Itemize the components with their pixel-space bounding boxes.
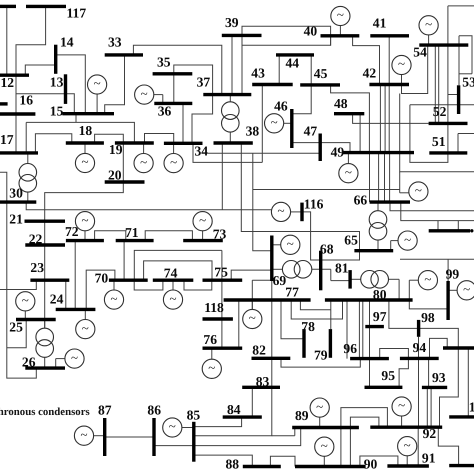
- svg-text:~: ~: [141, 86, 148, 101]
- bus118: [203, 317, 233, 320]
- svg-text:84: 84: [227, 402, 241, 417]
- wire w44-45: [310, 55, 312, 85]
- svg-text:~: ~: [415, 183, 422, 198]
- svg-text:37: 37: [197, 75, 211, 90]
- bus49: [343, 151, 415, 154]
- svg-text:~: ~: [277, 203, 284, 218]
- svg-text:~: ~: [463, 282, 470, 297]
- wire w99-up: [447, 259, 449, 281]
- svg-text:20: 20: [108, 168, 122, 183]
- svg-text:23: 23: [30, 260, 44, 275]
- wire w98-94-92: [418, 337, 420, 427]
- svg-text:33: 33: [108, 35, 122, 50]
- svg-text:89: 89: [295, 408, 309, 423]
- wire w54-top: [448, 5, 474, 7]
- svg-text:95: 95: [381, 368, 395, 383]
- bus51: [429, 151, 467, 154]
- wire w45-46: [292, 85, 311, 114]
- svg-text:41: 41: [373, 16, 387, 31]
- wire w39-40b: [242, 36, 331, 45]
- generator G73: [193, 212, 212, 231]
- wire w88-90: [270, 456, 295, 466]
- svg-text:96: 96: [343, 341, 357, 356]
- wire w66-r2: [401, 202, 474, 221]
- bus16: [0, 112, 35, 115]
- wire generator stub: [251, 300, 253, 309]
- svg-text:71: 71: [125, 225, 139, 240]
- wire w53-up3: [459, 73, 472, 75]
- wire w-left-25: [7, 320, 26, 348]
- bus25: [16, 318, 56, 321]
- wire w46-47: [292, 142, 320, 144]
- wire generator stub: [173, 143, 175, 153]
- wire generator stub: [211, 348, 213, 359]
- wire w48-49: [359, 114, 361, 153]
- bus18: [66, 141, 104, 144]
- wire w40-41: [353, 36, 380, 85]
- generator G85: [163, 418, 182, 437]
- wire generator stub: [55, 359, 57, 369]
- wire w80-96c: [346, 300, 348, 359]
- svg-text:~: ~: [398, 56, 405, 71]
- bus71: [116, 239, 154, 242]
- wire w100-110: [467, 348, 469, 417]
- wire w53-up2: [458, 36, 460, 86]
- wire w54-52b: [438, 45, 440, 123]
- bus73: [183, 239, 223, 242]
- wire w83-84: [251, 387, 253, 417]
- node dot right of bus64: [470, 229, 473, 232]
- wire generator stub: [143, 143, 145, 154]
- bus97: [365, 325, 384, 328]
- svg-text:~: ~: [71, 350, 78, 365]
- bus36: [154, 102, 192, 105]
- wire generator stub: [448, 289, 457, 291]
- wire w33-15: [105, 55, 125, 114]
- svg-text:116: 116: [304, 197, 324, 212]
- wire transformer stub: [330, 269, 332, 280]
- svg-text:66: 66: [354, 193, 368, 208]
- bus30: [0, 200, 36, 203]
- svg-text:76: 76: [203, 332, 217, 347]
- wire w64-tap1: [437, 221, 439, 231]
- wire w11-12: [6, 6, 8, 75]
- svg-text:~: ~: [199, 212, 206, 227]
- svg-text:26: 26: [22, 355, 36, 370]
- wire w87-86: [105, 436, 154, 438]
- wire w23-left: [0, 280, 36, 289]
- bus34: [164, 142, 203, 145]
- svg-text:~: ~: [398, 398, 405, 413]
- svg-text:46: 46: [274, 99, 288, 114]
- bus12: [0, 73, 29, 76]
- svg-text:42: 42: [363, 66, 377, 81]
- bus75: [203, 279, 243, 282]
- svg-text:94: 94: [413, 340, 427, 355]
- wire generator stub: [319, 417, 321, 427]
- bus41: [370, 34, 409, 37]
- svg-text:1: 1: [469, 400, 474, 415]
- wire w53-up1: [459, 36, 472, 74]
- wire transformer stub: [44, 357, 46, 368]
- generator G18: [75, 153, 94, 172]
- transformer T37-38: [222, 102, 240, 132]
- svg-text:~: ~: [337, 7, 344, 22]
- generator G36: [135, 85, 154, 104]
- wire w90-91: [360, 456, 398, 467]
- bus22: [25, 243, 65, 246]
- bus87: [103, 418, 106, 456]
- bus91: [387, 464, 429, 467]
- svg-text:45: 45: [314, 66, 328, 81]
- svg-text:47: 47: [304, 124, 318, 139]
- svg-text:70: 70: [95, 271, 109, 286]
- wire w92-112: [438, 427, 458, 465]
- wire w23-T25: [44, 280, 46, 328]
- svg-text:36: 36: [158, 104, 172, 119]
- svg-text:chronous condensors: chronous condensors: [0, 406, 90, 418]
- wire generator stub: [24, 311, 26, 320]
- svg-text:~: ~: [80, 427, 87, 442]
- svg-text:~: ~: [404, 232, 411, 247]
- bus13: [64, 74, 67, 104]
- wire generator stub: [56, 358, 65, 360]
- svg-text:118: 118: [204, 300, 224, 315]
- wire w23-24: [65, 280, 67, 309]
- wire w39-37b: [241, 35, 243, 94]
- wire w80-98-92: [389, 300, 458, 427]
- svg-text:43: 43: [251, 66, 265, 81]
- wire w45-49: [331, 85, 370, 153]
- svg-text:87: 87: [98, 403, 112, 418]
- generator G65: [398, 231, 417, 250]
- svg-text:34: 34: [195, 144, 209, 159]
- svg-text:~: ~: [22, 293, 29, 308]
- wire transformer stub: [388, 278, 399, 280]
- wire w89-90b: [349, 428, 351, 467]
- wire w51-tap: [457, 134, 459, 153]
- bus93: [422, 386, 447, 389]
- wire w93-92a: [426, 387, 428, 427]
- svg-text:16: 16: [19, 93, 33, 108]
- wire w80-96a: [358, 300, 360, 359]
- svg-text:90: 90: [364, 457, 378, 472]
- bus79: [329, 329, 332, 358]
- svg-text:38: 38: [246, 124, 260, 139]
- bus20: [105, 180, 145, 183]
- wire w35-37: [174, 65, 213, 95]
- wire w47-49: [320, 143, 350, 153]
- bus84: [223, 415, 262, 418]
- bus46: [290, 109, 293, 148]
- wire w85-84: [194, 417, 242, 427]
- wire transformer stub: [27, 153, 29, 164]
- svg-text:~: ~: [208, 360, 215, 375]
- wire w48-52: [353, 114, 429, 124]
- svg-text:39: 39: [225, 15, 239, 30]
- generator G66r: [409, 182, 428, 201]
- wire w49-66a: [369, 153, 371, 203]
- svg-text:52: 52: [433, 104, 447, 119]
- wire transformer stub: [229, 132, 231, 143]
- svg-text:78: 78: [301, 319, 315, 334]
- svg-text:30: 30: [9, 186, 23, 201]
- transformer T69-81: [282, 261, 311, 279]
- wire wbus15tap: [75, 114, 77, 123]
- svg-text:49: 49: [331, 145, 345, 160]
- svg-text:~: ~: [81, 212, 88, 227]
- wire generator stub: [84, 309, 86, 319]
- bus82: [252, 357, 291, 360]
- bus81: [348, 270, 351, 289]
- transformer T25-26: [36, 328, 54, 357]
- bus39: [222, 34, 262, 37]
- wire w69-85: [194, 281, 272, 436]
- wire w117-12: [16, 6, 46, 75]
- bus26: [25, 366, 65, 369]
- wire generator stub: [172, 280, 174, 290]
- wire generator stub: [96, 94, 98, 114]
- wire w54-51: [410, 6, 448, 163]
- wire w72-24: [74, 241, 76, 310]
- bus19: [115, 141, 154, 144]
- svg-text:~: ~: [110, 291, 117, 306]
- bus77: [224, 298, 311, 301]
- bus44: [276, 53, 314, 56]
- wire generator stub: [113, 280, 115, 290]
- svg-text:99: 99: [446, 267, 460, 282]
- wire w38-65: [241, 143, 359, 251]
- wire w49-66c: [384, 153, 386, 203]
- wire w12-14: [25, 65, 55, 75]
- wire w17-19: [26, 122, 134, 143]
- generator G26: [65, 349, 84, 368]
- wire generator stub: [391, 240, 398, 242]
- svg-text:48: 48: [334, 96, 348, 111]
- wire w85-89: [294, 428, 296, 436]
- generator G46: [265, 114, 284, 133]
- wire w49-66d: [389, 153, 391, 203]
- wire w18-20: [95, 134, 124, 182]
- svg-text:93: 93: [432, 370, 446, 385]
- svg-text:~: ~: [424, 271, 431, 286]
- svg-text:~: ~: [271, 115, 278, 130]
- wire w16-15: [16, 94, 74, 114]
- svg-text:24: 24: [50, 292, 64, 307]
- svg-text:18: 18: [79, 123, 93, 138]
- wire w72-71: [95, 231, 126, 241]
- generator G91: [398, 437, 417, 456]
- wire generator stub: [390, 241, 392, 251]
- wire w92-91: [417, 427, 419, 465]
- svg-text:73: 73: [213, 227, 227, 242]
- bus40: [321, 34, 360, 37]
- svg-text:54: 54: [413, 45, 427, 60]
- wire w15-17-19: [25, 122, 27, 152]
- wire w89-92b: [350, 417, 379, 427]
- svg-text:80: 80: [373, 287, 387, 302]
- svg-text:44: 44: [286, 56, 300, 71]
- transformer T66-65: [369, 211, 387, 240]
- bus76: [203, 347, 243, 350]
- svg-text:86: 86: [147, 403, 161, 418]
- wire w42-54: [402, 45, 428, 93]
- svg-text:21: 21: [9, 212, 23, 227]
- wire w82-96: [281, 358, 360, 367]
- svg-text:81: 81: [335, 261, 349, 276]
- wire transformer stub: [27, 192, 29, 202]
- wire w85-89b: [272, 435, 295, 437]
- wire transformer stub: [377, 240, 379, 251]
- generator G80: [418, 271, 437, 290]
- svg-text:91: 91: [422, 451, 436, 466]
- wire w17-18: [35, 134, 71, 153]
- wire w69-77g: [251, 280, 253, 309]
- wire w70-75a: [134, 250, 222, 280]
- svg-text:69: 69: [273, 273, 287, 288]
- wire generator stub: [323, 456, 325, 466]
- generator G69: [281, 235, 300, 254]
- wire w71-70: [123, 241, 125, 281]
- svg-text:82: 82: [252, 343, 266, 358]
- wire w42-49: [379, 85, 381, 153]
- svg-text:~: ~: [170, 154, 177, 169]
- generator G87: [74, 426, 93, 445]
- bus2cut: [0, 102, 8, 105]
- generator G49: [339, 164, 358, 183]
- bus74: [153, 279, 194, 282]
- wire generator stub: [154, 94, 163, 96]
- bus78: [302, 329, 305, 358]
- generator G70: [104, 290, 123, 309]
- wire generator stub: [291, 211, 302, 213]
- wire transformer stub: [350, 278, 361, 280]
- wire w-y190: [253, 189, 400, 191]
- wire w42-49b: [384, 85, 386, 153]
- wire transformer stub: [398, 279, 400, 300]
- bus37: [203, 93, 251, 96]
- wire w89-90a: [340, 428, 342, 467]
- wire w77-80b: [291, 300, 342, 319]
- bus99: [446, 281, 449, 320]
- svg-text:72: 72: [65, 224, 79, 239]
- wire generator stub: [400, 192, 409, 194]
- svg-text:~: ~: [404, 437, 411, 452]
- bus85: [192, 422, 195, 462]
- bus83: [242, 386, 280, 389]
- bus68: [319, 251, 322, 291]
- wire generator stub: [339, 26, 341, 36]
- wire w85-88: [194, 455, 253, 466]
- bus65: [354, 249, 393, 252]
- svg-text:~: ~: [169, 419, 176, 434]
- bus92: [370, 426, 442, 429]
- bus17: [0, 151, 38, 154]
- bus48: [334, 112, 364, 115]
- generator G19: [134, 154, 153, 173]
- svg-text:17: 17: [0, 132, 14, 147]
- bus88: [243, 465, 281, 468]
- generator G40: [331, 6, 350, 25]
- bus100cut: [443, 346, 474, 349]
- bus86: [152, 418, 155, 456]
- bus15: [62, 112, 114, 115]
- wire w99-row: [400, 258, 474, 260]
- svg-text:53: 53: [462, 75, 474, 90]
- wire generator stub: [401, 75, 403, 85]
- svg-text:~: ~: [287, 236, 294, 251]
- bus35: [153, 72, 193, 75]
- wire transformer stub: [331, 280, 350, 282]
- wire w74-75: [184, 280, 212, 290]
- wire w75-118-76: [221, 250, 223, 348]
- svg-text:117: 117: [67, 6, 87, 21]
- wire w86-89: [154, 428, 301, 446]
- svg-text:35: 35: [157, 55, 171, 70]
- svg-text:97: 97: [373, 309, 387, 324]
- wire w12-17: [15, 75, 17, 153]
- wire w64-tap2: [457, 221, 459, 231]
- wire w116-65: [302, 212, 360, 260]
- wire generator stub: [409, 279, 418, 281]
- svg-text:74: 74: [164, 266, 178, 281]
- svg-text:~: ~: [169, 291, 176, 306]
- svg-text:83: 83: [256, 374, 270, 389]
- svg-text:75: 75: [214, 265, 228, 280]
- wire w66-r1: [390, 202, 474, 211]
- bus42: [369, 83, 409, 86]
- svg-text:13: 13: [50, 75, 64, 90]
- wire w54-53: [448, 94, 459, 96]
- generator G92: [392, 397, 411, 416]
- bus66: [370, 200, 410, 203]
- wire w41-49: [388, 36, 390, 153]
- wire w77-80a: [300, 300, 330, 310]
- wire w89-92a: [341, 408, 388, 428]
- wire w80-96b: [362, 300, 364, 359]
- svg-text:79: 79: [314, 348, 328, 363]
- wire w94-100: [430, 338, 448, 358]
- bus117: [26, 5, 66, 8]
- wire transformer stub: [44, 320, 46, 329]
- wire transformer stub: [229, 95, 231, 102]
- wire w38-long: [221, 143, 223, 210]
- svg-text:85: 85: [187, 408, 201, 423]
- wire w80-79: [330, 300, 332, 329]
- svg-text:~: ~: [425, 17, 432, 32]
- wire w-69tap: [253, 153, 272, 251]
- svg-text:15: 15: [50, 104, 64, 119]
- svg-text:51: 51: [432, 134, 446, 149]
- wire generator stub: [94, 435, 105, 437]
- svg-text:~: ~: [94, 76, 101, 91]
- wire w75-69: [231, 270, 272, 280]
- svg-text:14: 14: [60, 35, 74, 50]
- wire w14-15: [56, 55, 86, 114]
- bus38: [214, 141, 253, 144]
- wire w71-73: [145, 231, 192, 241]
- wire generator stub: [272, 244, 281, 246]
- wire transformer stub: [272, 268, 283, 270]
- wire w20-23: [45, 182, 124, 280]
- wire w39-37a: [231, 35, 233, 94]
- generator G34: [164, 154, 183, 173]
- wire generator stub: [284, 122, 292, 124]
- generator G72: [75, 212, 94, 231]
- wire generator stub: [401, 416, 403, 427]
- svg-text:77: 77: [285, 285, 299, 300]
- wire w19-34: [145, 134, 174, 144]
